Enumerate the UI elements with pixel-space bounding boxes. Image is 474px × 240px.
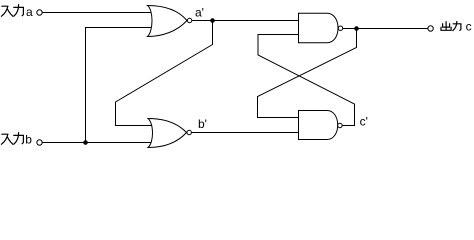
kanji ryoku of input b: [14, 133, 24, 145]
kanji nyuu of input b: [2, 134, 13, 144]
wire a' feedback to NOR2 upper input: [116, 21, 213, 126]
terminal input b: [37, 140, 42, 145]
NOR gate G2 bubble: [187, 130, 191, 134]
NAND gate G4 body: [299, 111, 338, 140]
wire b' (NOR2 output to NAND2 lower input): [192, 132, 300, 134]
svg-text:b': b': [198, 117, 207, 131]
wire input b: [43, 142, 154, 144]
NOR gate G1 body: [148, 6, 188, 37]
wire a' (NOR1 output to NAND1 upper input): [192, 20, 299, 22]
terminal output c: [428, 26, 433, 31]
svg-text:a': a': [195, 6, 204, 20]
kanji nyuu of input a: [2, 6, 13, 16]
svg-text:c': c': [360, 115, 368, 129]
kanji shutsu of output c: [441, 22, 451, 31]
terminal input a: [37, 10, 42, 15]
wire NAND1 output to terminal c: [343, 28, 428, 30]
wire cross feedback c' to NAND1 lower input: [258, 35, 355, 126]
kanji ryoku of input a: [14, 5, 24, 17]
wire input a: [43, 12, 154, 14]
svg-text:a: a: [26, 5, 33, 19]
NAND gate G4 bubble: [338, 123, 342, 127]
kanji ryoku of output c: [453, 22, 461, 31]
junction dot on output c wire: [354, 26, 359, 31]
NAND gate G3 body: [299, 13, 339, 43]
junction dot on a' wire: [210, 18, 215, 23]
NOR gate G1 bubble: [187, 18, 191, 22]
NOR gate G2 body: [148, 119, 187, 148]
junction dot on input b wire: [83, 140, 88, 145]
wire cross feedback NAND1 out to NAND2 upper input: [258, 29, 357, 118]
svg-text:c: c: [466, 20, 472, 34]
NAND gate G3 bubble: [338, 26, 342, 30]
svg-text:b: b: [25, 133, 32, 147]
wire b branch to NOR1 lower input: [86, 28, 154, 143]
